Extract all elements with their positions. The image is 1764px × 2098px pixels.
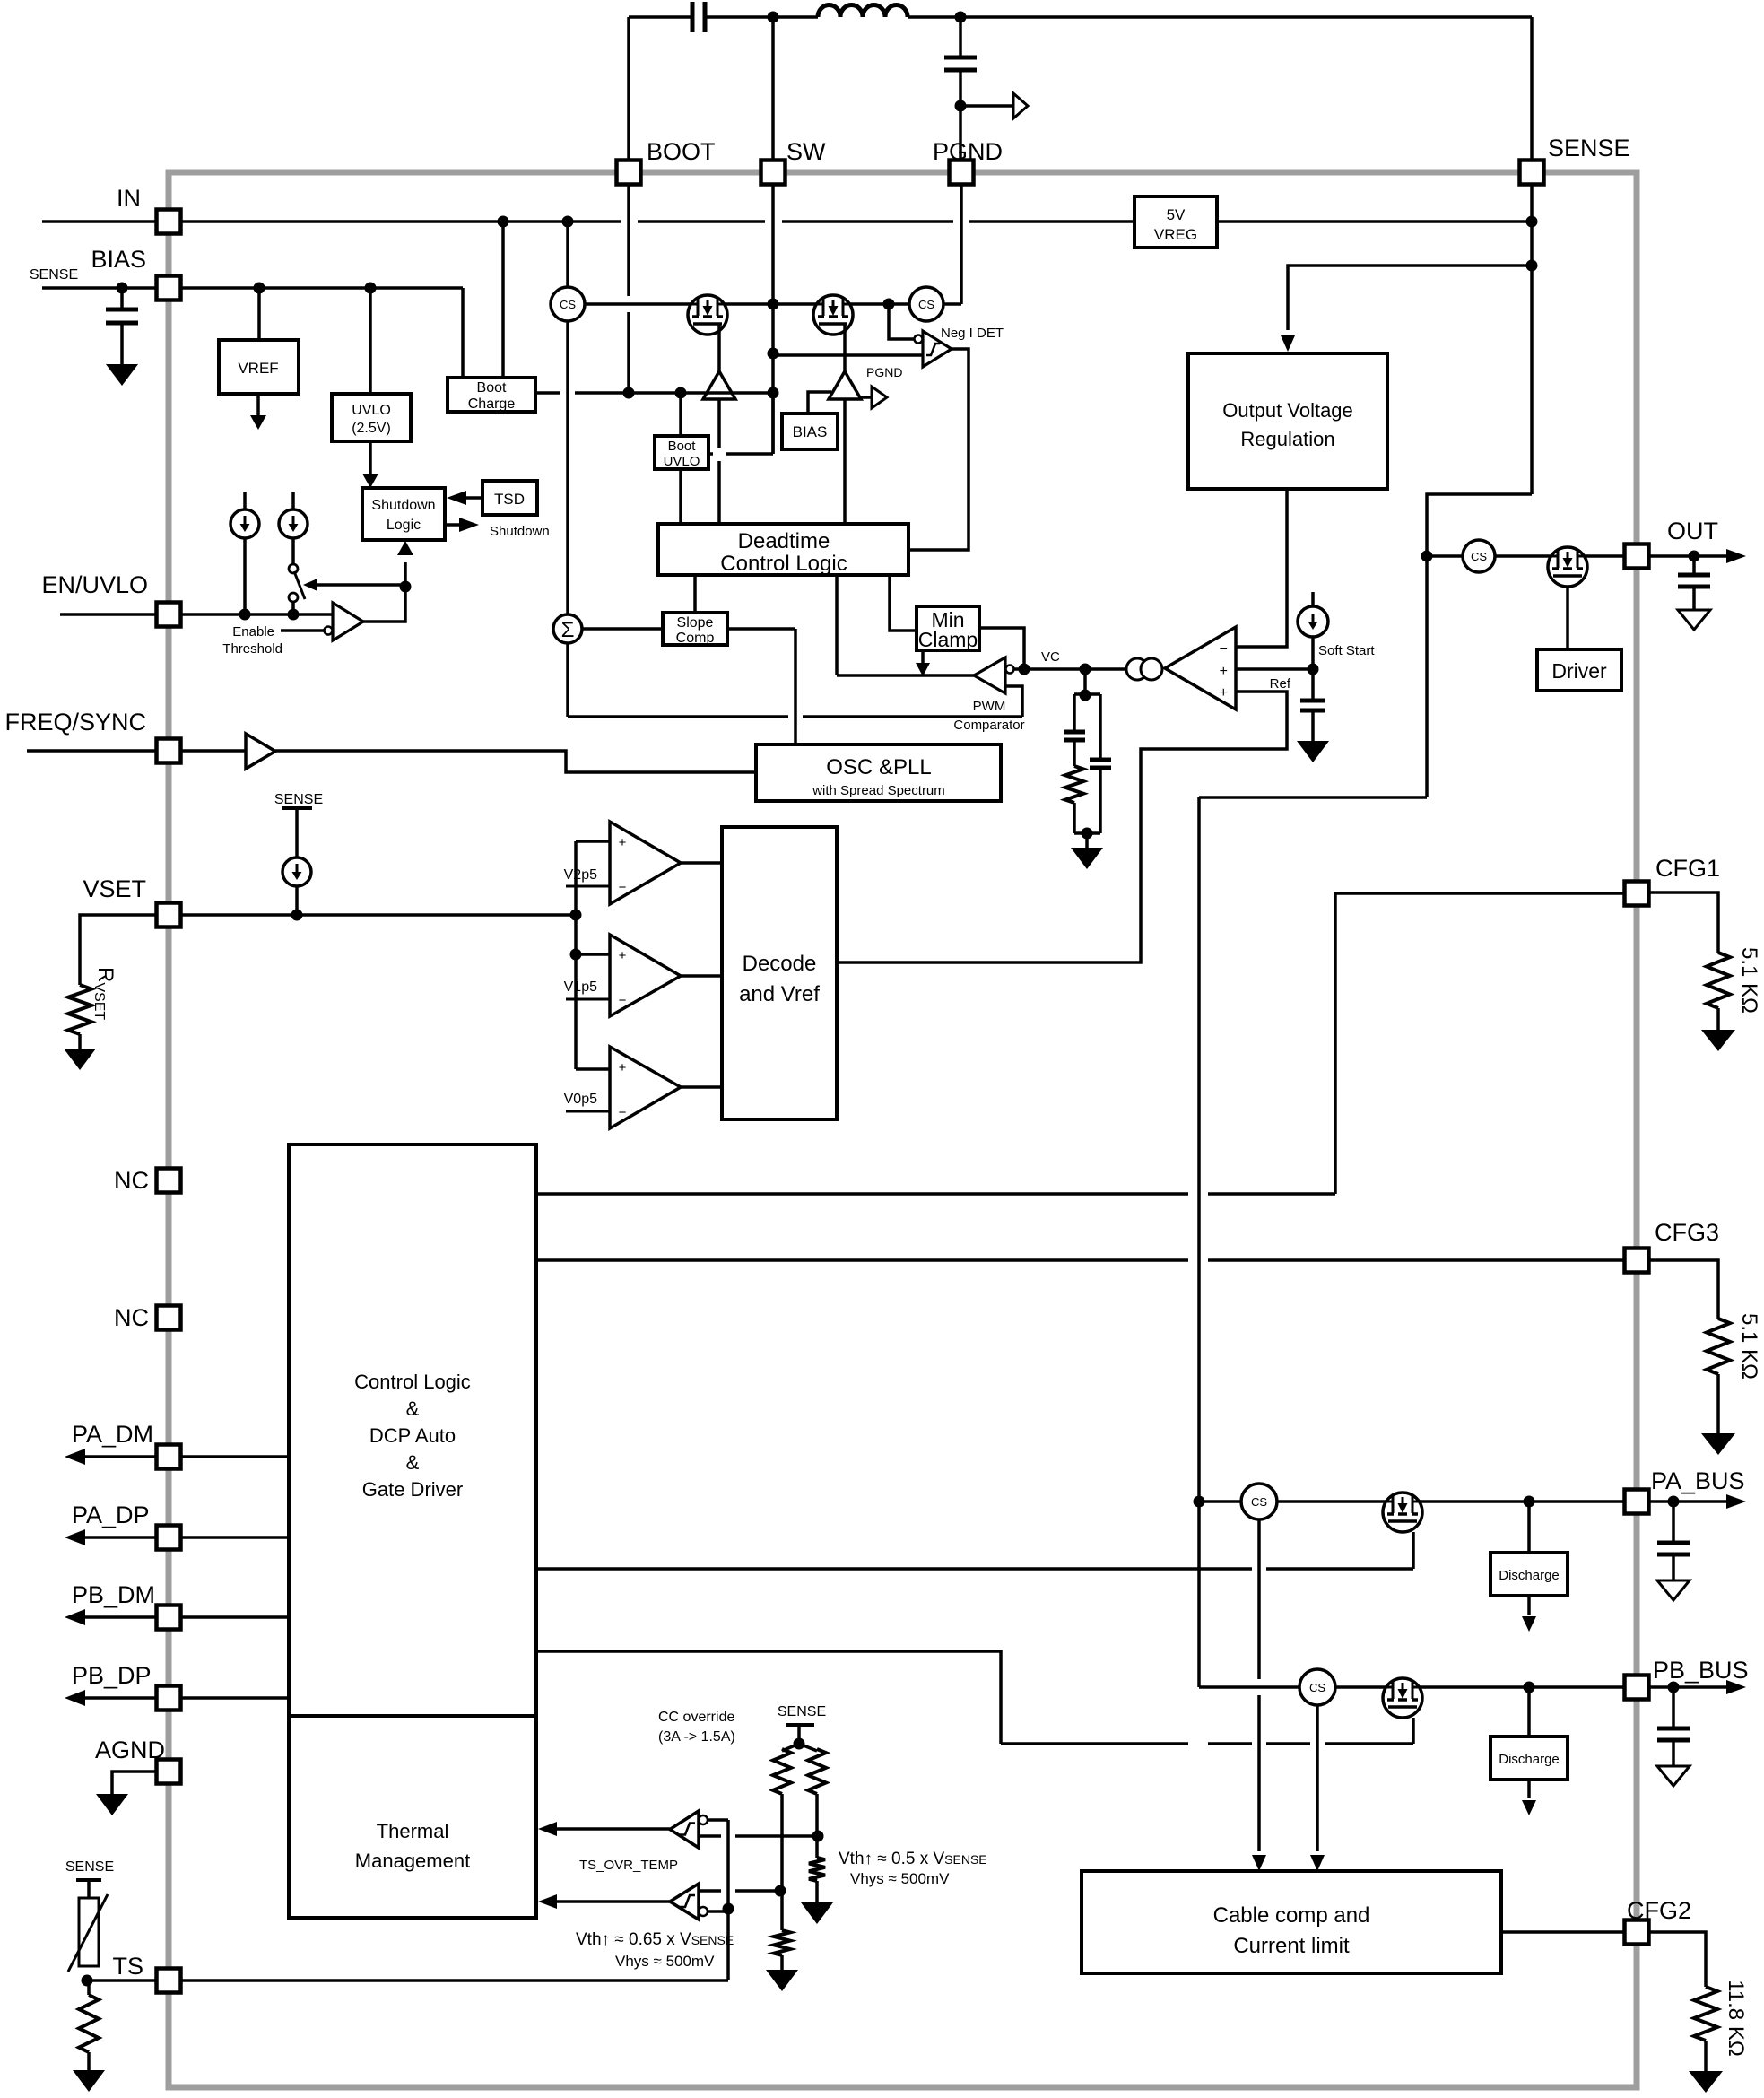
svg-text:CS: CS <box>1309 1681 1325 1694</box>
svg-text:Decode: Decode <box>743 952 817 976</box>
block TSD <box>482 481 537 515</box>
svg-text:PA_BUS: PA_BUS <box>1651 1467 1745 1494</box>
svg-text:CS: CS <box>918 298 934 311</box>
svg-text:Thermal: Thermal <box>377 1820 449 1842</box>
svg-text:and Vref: and Vref <box>739 982 820 1006</box>
node OUT sense <box>1421 551 1433 562</box>
arrow OVR input from SENSE <box>1288 266 1532 330</box>
svg-text:Control Logic: Control Logic <box>720 552 847 576</box>
wire V1p5 ref input <box>566 998 610 1001</box>
wire OUT through FET <box>1495 554 1625 558</box>
resistor TS parallel <box>87 1980 91 1995</box>
node compensation ground <box>1082 828 1093 840</box>
wire Q1 gate <box>717 324 721 371</box>
block Boot Charge <box>448 378 535 412</box>
svg-text:Control Logic: Control Logic <box>354 1371 471 1393</box>
wire deadtime to min clamp <box>890 575 917 631</box>
node IN to CS1 <box>562 216 574 228</box>
node BIAS cap junction <box>117 283 128 294</box>
arrow Shutdown output <box>445 523 459 527</box>
arrow PA_BUS <box>1726 1494 1746 1509</box>
pin TS <box>157 1969 181 1993</box>
block Discharge PA <box>1490 1553 1568 1596</box>
capacitor boot (CBOOT) <box>691 2 695 32</box>
svg-text:VREF: VREF <box>238 360 278 377</box>
svg-text:Shutdown: Shutdown <box>371 498 435 513</box>
compensation network RC <box>1083 669 1087 694</box>
pin PB_DP <box>157 1686 181 1711</box>
pin PA_DP <box>157 1526 181 1550</box>
svg-text:Regulation: Regulation <box>1240 428 1334 450</box>
wire PB discharge <box>1527 1687 1531 1737</box>
arrow PB_BUS <box>1726 1680 1746 1694</box>
comparator TS over temp <box>670 1884 699 1920</box>
wire min clamp to VC <box>979 628 1024 669</box>
wire left divider <box>780 1794 784 1891</box>
svg-text:IN: IN <box>117 185 141 212</box>
svg-text:V0p5: V0p5 <box>564 1092 597 1107</box>
svg-text:CS: CS <box>560 298 576 311</box>
transistor Q5 PB FET <box>1383 1678 1422 1718</box>
svg-text:EN/UVLO: EN/UVLO <box>41 571 148 598</box>
inductor L1 <box>773 15 818 19</box>
node PA_BUS feed <box>1194 1496 1205 1508</box>
node soft start <box>1308 664 1319 675</box>
svg-text:with Spread Spectrum: with Spread Spectrum <box>812 783 945 798</box>
svg-text:Boot: Boot <box>668 439 697 454</box>
comparator V2p5 <box>610 822 681 904</box>
block OSC &amp;PLL <box>756 744 1001 801</box>
block Driver <box>1537 649 1621 691</box>
svg-text:Comp: Comp <box>676 631 715 646</box>
arrow switch control <box>316 583 405 587</box>
svg-text:SENSE: SENSE <box>274 792 323 807</box>
wire comparator bus <box>574 841 578 1069</box>
svg-text:(3A -> 1.5A): (3A -> 1.5A) <box>658 1729 735 1745</box>
wire PA_BUS rail <box>1199 1500 1241 1503</box>
capacitor PA_BUS <box>1672 1502 1675 1543</box>
arrow CS5 into cable comp <box>1310 1855 1325 1871</box>
svg-text:CFG1: CFG1 <box>1655 855 1720 882</box>
node VSET comparator bus <box>570 910 582 921</box>
buffer FREQ/SYNC <box>246 734 275 769</box>
pin PA_BUS <box>1625 1490 1649 1514</box>
pin NC <box>157 1306 181 1330</box>
wire V2p5 ref input <box>566 885 610 888</box>
block UVLO (2.5V) <box>332 394 411 441</box>
ground CFG2 resistor <box>1704 2041 1708 2071</box>
wire right divider <box>815 1794 819 1836</box>
wire TS rail <box>87 1979 728 1982</box>
svg-text:DCP Auto: DCP Auto <box>369 1424 456 1447</box>
wire SENSE pin column <box>1530 172 1534 494</box>
arrow UVLO to Shutdown Logic <box>369 441 372 475</box>
svg-text:PB_BUS: PB_BUS <box>1653 1657 1749 1684</box>
svg-text:UVLO: UVLO <box>664 454 700 469</box>
svg-text:Charge: Charge <box>468 396 516 412</box>
svg-text:&: & <box>406 1397 420 1420</box>
svg-text:Boot: Boot <box>477 380 507 396</box>
comparator enable threshold <box>333 603 363 640</box>
svg-text:Ref: Ref <box>1270 676 1291 692</box>
wire CC override input <box>699 1834 721 1838</box>
svg-text:SENSE: SENSE <box>65 1859 114 1875</box>
current source VSET sense tap <box>282 806 312 810</box>
node SW-boot <box>768 387 779 399</box>
wire comparator output <box>363 588 405 622</box>
wire top from BOOT to boot capacitor <box>629 15 692 19</box>
gate driver Q2 <box>829 371 861 399</box>
block Decode and Vref <box>722 827 837 1119</box>
svg-text:Output Voltage: Output Voltage <box>1222 399 1353 422</box>
summer sigma <box>566 320 569 614</box>
block BIAS <box>782 414 838 449</box>
wire PWM output to deadtime <box>835 575 839 675</box>
svg-text:Cable comp and: Cable comp and <box>1213 1903 1370 1928</box>
wire PB_DP <box>85 1696 289 1700</box>
node VSET tap <box>291 910 303 921</box>
wire inductor to SENSE column <box>908 15 1532 19</box>
pin CFG3 <box>1625 1249 1649 1273</box>
ground left divider <box>780 1955 784 1970</box>
svg-text:BIAS: BIAS <box>793 423 828 440</box>
svg-text:Soft Start: Soft Start <box>1318 643 1375 658</box>
svg-text:SENSE: SENSE <box>778 1704 826 1719</box>
svg-text:Deadtime: Deadtime <box>738 529 830 553</box>
wire CS5 to cable comp <box>1316 1705 1319 1851</box>
ground right divider <box>815 1881 819 1902</box>
resistor 11.8 KOhm <box>1694 1987 1717 2041</box>
wire enable threshold input <box>281 629 324 632</box>
wire PB_BUS external <box>1648 1685 1726 1689</box>
wire CC override bubble to TS <box>708 1818 728 1822</box>
svg-text:5.1 KΩ: 5.1 KΩ <box>1737 1313 1761 1380</box>
node left divider tap <box>775 1885 786 1897</box>
svg-text:Gate Driver: Gate Driver <box>362 1478 463 1501</box>
pin OUT <box>1625 544 1649 569</box>
node PA discharge <box>1524 1496 1535 1508</box>
wire buffer to OSC <box>275 751 756 772</box>
resistor RVSET <box>68 985 91 1034</box>
svg-text:5V: 5V <box>1167 206 1186 223</box>
ground CFG1 resistor <box>1716 1008 1720 1030</box>
svg-text:FREQ/SYNC: FREQ/SYNC <box>4 709 146 736</box>
wire PA_BUS through FET <box>1277 1500 1625 1503</box>
node SW top junction <box>768 12 779 23</box>
wire CFG3 resistor <box>1648 1260 1718 1319</box>
svg-text:PB_DP: PB_DP <box>72 1662 152 1689</box>
node VC <box>1019 664 1030 675</box>
svg-text:Comparator: Comparator <box>953 718 1024 733</box>
wire to output arrow <box>960 104 1013 108</box>
wire I2 to switch <box>291 538 295 564</box>
svg-text:Enable: Enable <box>232 624 274 640</box>
capacitor BIAS bypass <box>120 288 124 309</box>
capacitor OUT <box>1692 556 1696 575</box>
block Boot UVLO <box>655 436 708 469</box>
node BIAS to VREF <box>254 283 265 294</box>
wire IN rail <box>42 220 169 223</box>
wire comp V0p5 plus <box>576 1067 610 1071</box>
node SW-drain <box>768 299 779 310</box>
wire EN/UVLO rail <box>60 613 333 616</box>
block Discharge PB <box>1490 1737 1568 1780</box>
svg-text:Threshold: Threshold <box>222 641 282 657</box>
wire CS4 to cable comp <box>1257 1519 1261 1679</box>
wire BIAS block to Q2 driver <box>808 392 831 414</box>
svg-text:TS: TS <box>112 1953 143 1980</box>
arrow VREF output down <box>256 394 260 416</box>
svg-text:OSC &PLL: OSC &PLL <box>826 755 931 779</box>
svg-text:Vth↑ ≈ 0.5 x VSENSE: Vth↑ ≈ 0.5 x VSENSE <box>839 1850 987 1868</box>
pin NC <box>157 1169 181 1193</box>
ground BIAS cap <box>106 364 138 386</box>
wire CFG2 <box>1501 1930 1625 1934</box>
node TS <box>82 1975 93 1987</box>
svg-text:11.8 KΩ: 11.8 KΩ <box>1724 1980 1748 2057</box>
wire VREF feed <box>257 288 261 340</box>
node IN to boot charge <box>498 216 509 228</box>
svg-text:+: + <box>1220 664 1228 679</box>
node SENSE-IN junction <box>1526 216 1538 228</box>
svg-text:CC override: CC override <box>658 1710 734 1725</box>
thermistor RNTC <box>76 1878 101 1882</box>
svg-text:Management: Management <box>355 1850 470 1872</box>
svg-text:Clamp: Clamp <box>918 628 978 651</box>
ground TS resistor <box>87 2052 91 2070</box>
current source I2 <box>291 492 295 509</box>
svg-text:Σ: Σ <box>561 618 575 642</box>
svg-text:+: + <box>619 1060 627 1075</box>
current sense CS1 <box>551 287 585 321</box>
svg-text:UVLO: UVLO <box>352 403 391 418</box>
ground soft start <box>1297 741 1329 762</box>
wire Q1 driver input <box>717 399 721 448</box>
pin SW <box>761 161 786 185</box>
svg-text:+: + <box>1220 685 1228 701</box>
wire VSET to RVSET <box>80 915 157 985</box>
wire FREQ/SYNC rail <box>27 749 246 753</box>
resistor 5.1 KOhm CFG3 <box>1707 1319 1730 1374</box>
wire to Boot UVLO <box>679 393 682 436</box>
svg-text:TSD: TSD <box>494 491 525 508</box>
block Min Clamp <box>917 606 979 650</box>
svg-text:BOOT: BOOT <box>647 138 716 165</box>
current sense CS5 <box>1299 1669 1335 1705</box>
node output junction <box>955 100 967 112</box>
wire boot cap to SW node <box>705 15 773 19</box>
wire Boot UVLO to deadtime <box>679 469 682 524</box>
svg-text:(2.5V): (2.5V) <box>352 421 391 436</box>
node BOOT-charge <box>623 387 635 399</box>
block Slope Comp <box>663 613 727 645</box>
wire Q2 driver input <box>843 399 847 524</box>
wire PB_DM <box>85 1615 289 1619</box>
svg-text:Driver: Driver <box>1551 659 1607 683</box>
open arrow to load <box>1013 93 1028 118</box>
svg-text:PGND: PGND <box>866 365 902 379</box>
block VREF <box>219 340 299 394</box>
svg-text:SW: SW <box>786 138 826 165</box>
block Cable comp and Current limit <box>1082 1871 1501 1973</box>
current source I1 <box>243 492 247 509</box>
ground AGND <box>96 1794 128 1815</box>
pin BIAS <box>157 276 181 300</box>
svg-text:Vhys ≈ 500mV: Vhys ≈ 500mV <box>850 1870 950 1887</box>
pin BOOT <box>617 161 641 185</box>
wire error amp minus input from OVR <box>1236 489 1287 647</box>
wire SW column <box>771 17 775 454</box>
wire Q3 gate to driver <box>1566 587 1569 649</box>
switch EN threshold select <box>289 564 298 573</box>
arrow PB discharge down <box>1527 1780 1531 1798</box>
svg-text:+: + <box>619 948 627 963</box>
pin IN <box>157 210 181 234</box>
svg-text:−: − <box>1220 641 1228 657</box>
svg-text:CFG2: CFG2 <box>1627 1897 1691 1924</box>
svg-text:OUT: OUT <box>1667 518 1718 544</box>
wire neg current det input <box>773 353 923 357</box>
wire VREG out to SENSE column <box>1217 220 1532 223</box>
svg-text:+: + <box>619 835 627 850</box>
chip boundary (IC outline) <box>169 172 1637 2087</box>
wire CFG1 resistor <box>1648 892 1718 953</box>
svg-text:PB_DM: PB_DM <box>72 1581 155 1608</box>
wire IN to Boot Charge <box>501 222 505 378</box>
wire CS2 to PGND pin <box>943 302 961 306</box>
capacitor PB_BUS <box>1672 1687 1675 1728</box>
svg-text:Vth↑ ≈ 0.65 x VSENSE: Vth↑ ≈ 0.65 x VSENSE <box>576 1930 734 1949</box>
wire comp V1p5 plus <box>576 953 610 956</box>
comparator CC override <box>670 1811 699 1848</box>
resistor divider left top <box>773 1749 791 1794</box>
current sense CS4 <box>1241 1484 1277 1519</box>
node PB discharge <box>1524 1682 1535 1693</box>
wire switch to EN rail <box>291 602 295 614</box>
node EN-I1 <box>239 609 251 621</box>
wire output cap bottom to PGND pin <box>959 70 962 172</box>
node SENSE to OVR <box>1526 260 1538 272</box>
svg-text:VC: VC <box>1041 649 1060 665</box>
wire BOOT column <box>627 17 630 296</box>
wire TS over temp input <box>699 1889 721 1893</box>
wire CS2 to Neg I DET <box>889 304 914 339</box>
comparator Neg I DET <box>915 335 923 344</box>
pin PB_BUS <box>1625 1676 1649 1700</box>
node PB_BUS cap <box>1668 1682 1680 1693</box>
ground compensation <box>1085 833 1089 848</box>
comparator PWM <box>974 657 1005 693</box>
arrow min clamp onto PWM line <box>921 650 925 664</box>
svg-text:VREG: VREG <box>1154 226 1197 243</box>
block Thermal Management <box>289 1716 536 1918</box>
svg-text:CFG3: CFG3 <box>1655 1219 1719 1246</box>
ground PA_BUS (open) <box>1657 1580 1690 1600</box>
wire sigma to PWM comparator <box>566 643 569 717</box>
supply tap SENSE divider <box>786 1723 814 1727</box>
arrow enable comparator to Shutdown Logic <box>404 562 407 588</box>
pin CFG1 <box>1625 882 1649 906</box>
node inductor-PGND-cap junction <box>955 12 967 23</box>
node boot-UVLO branch <box>675 387 687 399</box>
wire UVLO feed <box>369 288 372 394</box>
current sense CS2 <box>909 287 943 321</box>
wire SENSE jog to OUT node <box>1427 494 1532 797</box>
wire VC node <box>1014 667 1126 671</box>
wire PA_BUS external <box>1648 1500 1726 1503</box>
pin PB_DM <box>157 1606 181 1630</box>
wire OUT rail <box>1427 554 1463 558</box>
comparator V0p5 <box>610 1047 681 1128</box>
svg-text:&: & <box>406 1451 420 1474</box>
wire PA_DM <box>85 1455 289 1458</box>
wire CFG1 route <box>536 1192 1188 1196</box>
pin AGND <box>157 1760 181 1784</box>
svg-text:Slope: Slope <box>677 615 714 631</box>
wire PGND net arrow <box>859 396 872 399</box>
svg-text:SENSE: SENSE <box>30 267 78 283</box>
wire slope comp to OSC <box>727 627 795 631</box>
svg-text:Discharge: Discharge <box>1499 1568 1560 1583</box>
wire comp V2p5 plus <box>576 840 610 843</box>
wire I1 to EN rail <box>243 538 247 614</box>
svg-text:BIAS: BIAS <box>91 246 146 273</box>
svg-text:Shutdown: Shutdown <box>490 524 550 539</box>
wire Q2 gate <box>843 324 847 371</box>
arrow TSD to Shutdown Logic <box>466 496 482 500</box>
node compensation branch <box>1080 664 1091 675</box>
wire PWM output <box>837 674 974 677</box>
block Shutdown Logic <box>362 488 445 540</box>
svg-text:−: − <box>619 880 627 895</box>
wire PA discharge <box>1527 1502 1531 1553</box>
wire PB_BUS rail <box>1199 1685 1299 1689</box>
current sense CS3 <box>1463 540 1495 572</box>
ground OUT (open) <box>1678 610 1710 630</box>
transistor Q4 PA FET <box>1383 1493 1422 1532</box>
svg-text:NC: NC <box>114 1167 149 1194</box>
wire SENSE column top <box>1530 17 1534 172</box>
current source soft start <box>1311 592 1315 607</box>
transistor Q2 low-side FET <box>813 295 853 335</box>
wire AGND <box>112 1772 157 1794</box>
svg-text:PA_DP: PA_DP <box>72 1502 150 1528</box>
svg-text:Vhys ≈ 500mV: Vhys ≈ 500mV <box>615 1953 715 1970</box>
arrow PA discharge down <box>1527 1596 1531 1615</box>
wire gate drive A to Q4 <box>536 1567 1252 1571</box>
svg-text:VSET: VSET <box>83 875 146 902</box>
wire error amp plus input / soft start <box>1236 667 1313 671</box>
wire gate drive B to Q5 <box>536 1651 1001 1744</box>
transistor Q1 high-side FET <box>688 295 727 335</box>
svg-text:CS: CS <box>1471 550 1487 563</box>
wire TS over temp bubble <box>708 1910 728 1913</box>
svg-text:Logic: Logic <box>387 518 421 533</box>
wire OUT feed down to port FETs <box>1199 796 1427 799</box>
amplifier gm symbol <box>1126 658 1148 680</box>
pin CFG2 <box>1625 1920 1649 1945</box>
node EN-switch <box>288 609 300 621</box>
wire VSET rail <box>180 913 576 917</box>
arrow CC override to thermal <box>557 1827 670 1831</box>
wire V0p5 ref input <box>566 1110 610 1113</box>
wire BIAS corner into Boot Charge <box>461 288 465 378</box>
svg-text:TS_OVR_TEMP: TS_OVR_TEMP <box>579 1858 678 1873</box>
node OUT cap <box>1689 551 1700 562</box>
block Deadtime Control Logic <box>658 524 908 575</box>
svg-text:CS: CS <box>1251 1495 1267 1509</box>
ground RVSET <box>78 1034 82 1049</box>
